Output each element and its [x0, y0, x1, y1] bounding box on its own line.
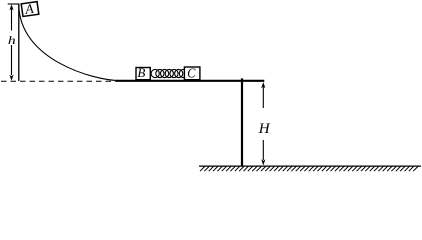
svg-text:h: h — [8, 34, 16, 47]
svg-text:B: B — [137, 65, 145, 80]
svg-text:H: H — [258, 121, 271, 137]
svg-text:C: C — [187, 66, 196, 81]
